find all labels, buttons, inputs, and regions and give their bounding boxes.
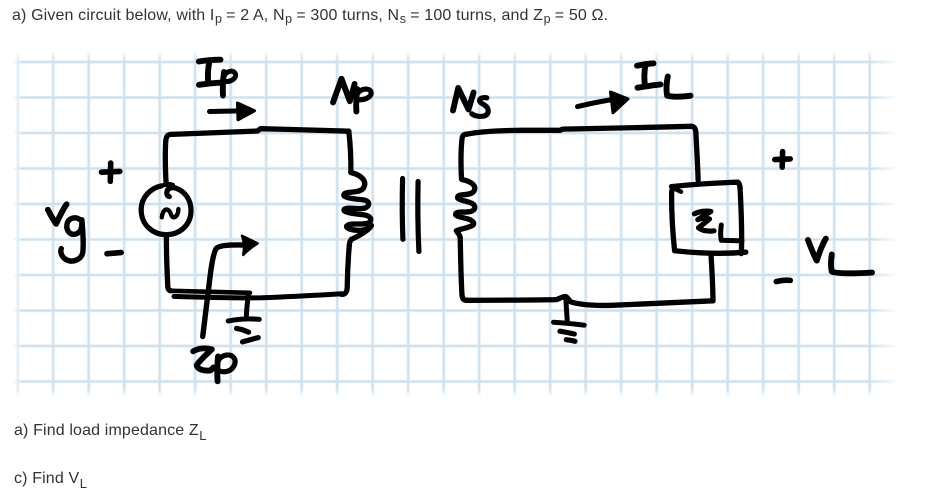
polarity plus (left) xyxy=(102,169,120,175)
wire: secondary right upper vertical xyxy=(692,126,699,180)
arrow pointer for Zp xyxy=(203,245,242,337)
wire: primary right lower vertical xyxy=(342,246,350,295)
ground (primary) bar 3 xyxy=(243,338,259,342)
polarity minus (right) xyxy=(776,280,790,281)
polarity minus (left) xyxy=(107,253,121,254)
transformer core bar 2 xyxy=(418,182,419,252)
problem statement text xyxy=(12,6,608,26)
wire: load right vertical xyxy=(711,255,713,301)
arrow for Ip xyxy=(210,108,242,114)
label Zp : Z xyxy=(193,348,213,370)
label IL : L subscript xyxy=(667,77,691,97)
wire: primary top horizontal xyxy=(172,129,349,135)
wire: primary left lower vertical xyxy=(166,237,171,291)
label Ns : s subscript xyxy=(472,98,488,117)
load ZL box xyxy=(672,182,742,253)
question a) text xyxy=(14,421,206,440)
label VL : L subscript xyxy=(831,255,872,274)
wire: secondary bottom horizontal xyxy=(467,296,714,305)
ground (primary) bar 2 xyxy=(237,328,249,332)
inductor Np coil xyxy=(344,173,372,246)
label ZL in box : L subscript xyxy=(721,225,742,241)
polarity plus (right) xyxy=(775,156,790,162)
wire: secondary left top vertical xyxy=(461,134,467,179)
label Ip : p subscript xyxy=(223,72,224,96)
wire: primary bottom horizontal xyxy=(174,294,342,298)
label IL : I xyxy=(637,63,654,65)
ground (primary) bar 1 xyxy=(228,319,259,321)
source Vg wire-end tick xyxy=(164,182,172,187)
label ZL in box : Z xyxy=(694,211,714,231)
wire: primary bottom upper stroke xyxy=(171,291,250,293)
inductor Ns coil xyxy=(456,180,475,238)
ground (primary) stem xyxy=(246,296,248,318)
wire: secondary top horizontal xyxy=(467,126,692,134)
transformer core bar 1 xyxy=(400,179,406,240)
wire: primary left top vertical xyxy=(165,134,172,184)
wire: primary right upper vertical xyxy=(349,131,351,172)
label Ip : I xyxy=(199,60,221,62)
ground (secondary) bar 3 xyxy=(566,340,575,342)
label VL : V xyxy=(808,239,826,261)
load ZL box top-left pen hook xyxy=(672,187,681,192)
label Zp : p subscript xyxy=(214,357,221,382)
question c) text xyxy=(14,469,87,488)
ground (secondary) bar 2 xyxy=(560,331,574,334)
label Vg : g subscript xyxy=(67,218,82,235)
label Np : N xyxy=(333,79,355,103)
arrow for IL xyxy=(578,100,613,107)
ground (secondary) stem xyxy=(566,298,567,321)
label Vg : V xyxy=(48,204,67,224)
source Vg circle xyxy=(141,186,191,235)
label Ns : N xyxy=(453,88,474,111)
ground (secondary) bar 1 xyxy=(554,322,585,325)
wire: secondary left lower vertical xyxy=(460,238,466,301)
label Np : p subscript xyxy=(356,89,357,112)
source Vg tilde xyxy=(162,209,179,217)
